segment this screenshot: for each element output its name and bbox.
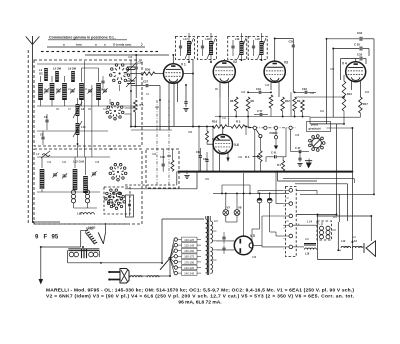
svg-text:C 41: C 41 <box>271 151 277 155</box>
svg-text:100-125: 100-125 <box>184 238 194 242</box>
wire <box>77 98 79 104</box>
coil L17 arrow <box>185 38 194 59</box>
primary top lead <box>205 216 207 219</box>
svg-text:L12: L12 <box>341 240 346 243</box>
arrowhead <box>39 279 44 285</box>
wire <box>263 114 268 116</box>
choke coil A <box>69 252 78 257</box>
wire <box>259 193 261 198</box>
wire <box>236 215 238 222</box>
wire <box>275 139 277 146</box>
phono label box <box>307 122 331 132</box>
wire <box>359 246 364 248</box>
wire <box>206 162 208 172</box>
wafer switch S3 <box>109 163 127 181</box>
svg-text:OC: OC <box>39 72 43 76</box>
capacitor C34 <box>360 37 362 41</box>
wire <box>332 229 337 231</box>
coil L4 <box>44 68 48 81</box>
cord wire end <box>155 275 170 277</box>
V6 top lead <box>222 128 224 135</box>
wire <box>317 215 319 260</box>
loop wire <box>340 59 342 81</box>
shield box 2 bottom extension <box>34 223 130 225</box>
terminal 5 <box>289 234 293 238</box>
wire <box>206 152 208 159</box>
capacitor C35 <box>360 47 362 51</box>
wire <box>178 239 182 241</box>
V3 lead <box>278 82 280 98</box>
wafer switch S1 <box>109 64 129 84</box>
wafer stub wire <box>125 107 137 109</box>
box1 lower bus <box>37 130 108 132</box>
terminal 2 <box>289 202 293 206</box>
capacitor C20 <box>292 45 295 47</box>
wire <box>241 55 243 60</box>
svg-text:210-220: 210-220 <box>184 266 194 270</box>
padder coil Lb <box>85 190 89 203</box>
svg-text:V7: V7 <box>227 206 231 210</box>
svg-text:C61: C61 <box>205 179 210 181</box>
svg-text:C29: C29 <box>138 61 144 65</box>
coupling unit box <box>126 195 134 217</box>
capacitor C26 <box>101 81 104 83</box>
wire <box>77 135 79 157</box>
wafer stub wire 2 <box>125 113 132 115</box>
svg-text:R30: R30 <box>145 68 151 72</box>
wire y97 <box>296 96 344 98</box>
choke coil B <box>89 252 98 257</box>
svg-text:R8: R8 <box>251 99 255 103</box>
tone left lead <box>80 230 82 247</box>
R4 wiper arrow <box>253 155 261 158</box>
wire <box>82 67 99 69</box>
svg-text:C42: C42 <box>152 154 157 156</box>
wire <box>337 222 339 250</box>
svg-text:L5 OM: L5 OM <box>53 67 61 71</box>
output transformer box <box>317 221 332 240</box>
ground phono <box>307 163 312 166</box>
wire <box>363 38 374 40</box>
V6 top tick <box>217 137 220 140</box>
wire <box>171 149 173 160</box>
long vertical in box1 <box>84 61 86 157</box>
wire <box>262 91 271 93</box>
capacitor C50 <box>222 237 225 239</box>
V2 lead <box>219 83 221 98</box>
selector fan wire <box>170 256 174 258</box>
outer shield left edge <box>27 50 29 224</box>
wire <box>135 55 137 67</box>
capacitor C64 <box>205 160 208 162</box>
wire <box>293 246 304 248</box>
wire <box>171 170 173 173</box>
selector tap 175-190 <box>174 260 177 263</box>
svg-text:Commutatore gamma in posizi: Commutatore gamma in posizione O.L. <box>49 36 116 40</box>
wire <box>365 59 367 65</box>
capacitor C40 <box>162 164 165 166</box>
wire <box>262 215 283 217</box>
wire up to bus <box>221 185 223 193</box>
wire <box>283 203 289 205</box>
transformer T1 core <box>207 216 208 275</box>
svg-text:V 1: V 1 <box>181 63 186 67</box>
selector tap 240-245 <box>174 271 177 274</box>
wire <box>275 38 294 40</box>
wire <box>178 272 182 274</box>
mains cord coil A <box>130 276 142 278</box>
wire <box>254 114 259 116</box>
svg-text:175-190: 175-190 <box>184 260 194 264</box>
wire <box>197 239 201 241</box>
wire <box>282 157 284 161</box>
RF coil shield box 2 <box>34 149 142 224</box>
wire <box>302 112 304 117</box>
svg-text:C64: C64 <box>203 157 208 161</box>
bus wire y116 <box>215 116 310 118</box>
coil L18 osc <box>80 213 94 215</box>
bus 214 <box>296 214 336 216</box>
coil L6 <box>71 71 75 82</box>
wire <box>41 157 43 168</box>
svg-text:C19: C19 <box>256 87 261 91</box>
transformer primary <box>206 219 208 273</box>
svg-text:C 35: C 35 <box>354 43 360 47</box>
wire <box>309 117 311 124</box>
box1 bottom bus <box>37 105 138 107</box>
svg-text:giradischi: giradischi <box>309 127 322 131</box>
switch contact b <box>264 126 267 129</box>
gang link <box>156 100 158 186</box>
secondary top lead <box>209 216 211 221</box>
capacitor C45 <box>128 204 131 205</box>
svg-text:V 5: V 5 <box>250 234 255 238</box>
wire <box>206 127 208 132</box>
wire <box>269 203 271 232</box>
svg-text:C10: C10 <box>103 109 108 111</box>
capacitor C18 <box>252 46 255 48</box>
svg-text:C22: C22 <box>241 92 246 94</box>
wire <box>178 267 182 269</box>
wire <box>85 157 87 175</box>
resistor R8 <box>246 97 250 111</box>
svg-text:C27: C27 <box>143 80 149 84</box>
V2 top lead <box>223 59 225 61</box>
capacitor C41 <box>275 155 277 158</box>
coil L8 arrow <box>73 102 82 118</box>
svg-text:L17: L17 <box>184 38 189 41</box>
wire <box>188 33 190 41</box>
wire y185 <box>222 184 250 186</box>
wire <box>275 232 277 236</box>
transformer secondary LT <box>210 247 212 273</box>
resistor R5 <box>282 161 285 172</box>
svg-text:C23: C23 <box>310 93 315 95</box>
resistor R15 <box>206 131 209 142</box>
svg-text:R18: R18 <box>167 156 172 158</box>
wire <box>129 196 131 204</box>
wire to strip 6 <box>262 246 283 248</box>
V6 cathode lead <box>219 153 221 171</box>
coil L3 <box>62 83 67 100</box>
wire <box>87 203 89 208</box>
wire drop <box>212 127 214 172</box>
svg-text:R 3: R 3 <box>236 120 241 124</box>
V5 plate feed wire <box>243 173 245 236</box>
switch arm contact <box>259 135 262 138</box>
svg-text:F: F <box>44 235 48 241</box>
wire <box>265 157 267 162</box>
wafer1 bottom stub <box>119 85 121 91</box>
selector fan wire <box>170 245 174 258</box>
wire <box>197 272 201 274</box>
bus 124 <box>310 123 344 125</box>
wire to strip top <box>277 172 279 181</box>
return wire y216 <box>317 215 372 217</box>
wire <box>73 203 75 208</box>
wire <box>290 130 292 152</box>
voice coil L12 <box>341 246 351 248</box>
capacitor C6 <box>45 120 48 122</box>
svg-text:125-145: 125-145 <box>184 244 194 248</box>
wire <box>292 47 294 92</box>
coil L1 OM <box>79 83 84 100</box>
wire arm to pot <box>259 138 261 151</box>
wire <box>162 149 164 164</box>
wire <box>227 126 231 128</box>
svg-text:presa: presa <box>311 123 318 127</box>
svg-text:R 4: R 4 <box>245 155 250 159</box>
speaker cone <box>366 241 376 257</box>
pilot lamp V7 <box>223 210 229 216</box>
wire <box>98 100 100 106</box>
wafer switch S5 <box>105 189 123 207</box>
wire <box>197 250 201 252</box>
filter core top <box>68 249 99 251</box>
RF coil shield box 1 <box>34 60 142 146</box>
wire <box>283 246 289 248</box>
wire <box>74 190 76 192</box>
resistor R16 <box>213 125 227 129</box>
resistor R6 <box>234 97 238 111</box>
return wire y178 <box>283 178 355 180</box>
svg-text:V2: V2 <box>233 60 237 64</box>
V4 lead <box>351 80 353 90</box>
wire <box>266 156 274 158</box>
selector label 125-145 <box>182 243 198 248</box>
wire <box>345 246 349 248</box>
capacitor C37 <box>299 150 301 153</box>
wire <box>338 249 341 251</box>
wire <box>149 85 160 87</box>
capacitor C27 <box>146 84 148 87</box>
wire <box>253 48 255 56</box>
tube V3 <box>264 61 285 82</box>
trimmer C17 <box>91 171 96 176</box>
bottom wire <box>318 259 353 261</box>
svg-text:240-245: 240-245 <box>184 272 194 276</box>
wafer stub wire 3 <box>109 99 111 104</box>
coil L2 OM <box>96 83 101 100</box>
wire <box>210 33 212 41</box>
field coil L16 core <box>304 244 316 246</box>
wire <box>210 55 212 62</box>
wire <box>327 38 360 40</box>
wire <box>251 229 253 241</box>
terminal 6 <box>289 245 293 249</box>
long bus y126 <box>131 126 213 128</box>
osc coil bottom wire <box>74 207 98 209</box>
fono arrow <box>274 146 278 150</box>
svg-text:R 1: R 1 <box>140 103 145 107</box>
coil L2 <box>50 83 55 100</box>
wire <box>98 68 100 82</box>
V3 lead <box>270 82 272 91</box>
capacitor C17 <box>231 46 234 48</box>
svg-text:V-6: V-6 <box>234 143 239 147</box>
ground main bus <box>184 176 189 179</box>
svg-text:C36: C36 <box>295 135 300 137</box>
capacitor C57 <box>201 46 204 48</box>
wire <box>64 100 66 106</box>
capacitor C19 <box>259 91 261 94</box>
coil L19 <box>240 41 244 55</box>
wire <box>291 151 299 153</box>
wire <box>225 193 227 209</box>
box2 top bus <box>37 156 110 158</box>
wire <box>283 215 289 217</box>
svg-text:V8: V8 <box>238 206 242 210</box>
wire <box>155 73 164 75</box>
wire <box>40 76 42 82</box>
wire <box>185 85 187 101</box>
wire <box>245 127 247 136</box>
wire drop d <box>285 128 287 157</box>
coil L5 <box>55 71 59 82</box>
IF can T2b <box>248 37 267 60</box>
svg-text:160-175: 160-175 <box>184 255 194 259</box>
trimmer C15 <box>52 172 57 177</box>
svg-text:C32: C32 <box>357 53 363 57</box>
resistor R13 <box>342 81 346 111</box>
wire <box>283 189 289 191</box>
wire <box>81 100 83 106</box>
wire <box>276 203 283 205</box>
pilot lamp V8 <box>234 210 240 216</box>
wire <box>363 58 366 60</box>
svg-text:L20: L20 <box>256 38 261 41</box>
tone control pot body <box>85 230 97 244</box>
wire <box>67 250 69 262</box>
switch drop wire <box>254 130 256 172</box>
wire <box>192 60 194 127</box>
resistor R10 <box>301 100 305 112</box>
coil L19 arrow <box>238 38 247 59</box>
IF can T2a <box>228 37 247 60</box>
wire <box>186 172 188 174</box>
resistor R3 <box>231 125 245 129</box>
V2 lead <box>228 82 230 97</box>
svg-text:C 37: C 37 <box>295 146 301 150</box>
wire <box>261 216 263 245</box>
wire <box>188 55 190 62</box>
mains switch contact <box>169 257 171 259</box>
return wire y183 <box>295 183 348 185</box>
long vertical wire <box>336 124 338 215</box>
coil L7 arrow symbol <box>41 151 50 158</box>
wire <box>275 130 277 136</box>
coil L10 <box>76 123 80 135</box>
electrolytic C53 <box>267 198 272 203</box>
svg-text:V2 = 6NK7 (idem) V3 = (90 V pl: V2 = 6NK7 (idem) V3 = (90 V pl.) V4 = 6L… <box>46 294 355 300</box>
heater bus y193 <box>213 192 289 194</box>
svg-text:C60: C60 <box>188 132 193 134</box>
svg-text:C31: C31 <box>155 107 160 109</box>
selector label 210-220 <box>182 265 198 270</box>
wire <box>290 92 292 116</box>
box1 top bus <box>37 63 138 65</box>
coil L18 arrow <box>207 38 216 59</box>
wire <box>202 48 204 56</box>
gang wire <box>130 70 132 82</box>
svg-text:O: O <box>287 196 289 200</box>
tone switch arm <box>103 232 105 243</box>
svg-text:C 57: C 57 <box>257 109 263 113</box>
wire <box>253 40 255 46</box>
wire <box>51 100 53 106</box>
tube V4 <box>346 62 366 82</box>
capacitor C62 <box>199 156 202 158</box>
wire <box>277 156 286 158</box>
svg-text:R14: R14 <box>365 92 370 94</box>
wire <box>223 245 225 248</box>
long vertical in box1 b <box>91 85 93 157</box>
selector label 100-125 <box>182 237 198 242</box>
phono connector P1 <box>309 135 326 152</box>
long vertical wire 2 <box>351 128 353 242</box>
wire <box>370 216 372 241</box>
selector tap 145-160 <box>174 249 177 252</box>
wire <box>275 172 277 204</box>
IF can T1a <box>175 37 194 60</box>
V1 lead <box>173 84 175 127</box>
svg-text:R13: R13 <box>347 92 352 96</box>
rectifier plate wire <box>217 240 235 242</box>
svg-text:96 mA, 6L6 72 mA.: 96 mA, 6L6 72 mA. <box>178 300 222 306</box>
field coil L16 <box>305 248 317 249</box>
wire below bus 2 <box>196 172 198 189</box>
tuning cap CV2 <box>126 77 136 87</box>
resistor R40 <box>171 160 174 171</box>
switch contact d <box>289 126 292 129</box>
rectifier plate wire 2 <box>217 249 235 251</box>
svg-text:C40: C40 <box>160 155 165 159</box>
secondary tap 3 <box>213 249 217 251</box>
wire <box>252 228 260 230</box>
secondary tap 2 <box>213 240 217 242</box>
svg-text:L19: L19 <box>235 38 240 41</box>
wire <box>81 68 83 82</box>
pickup wire <box>41 246 81 248</box>
wire <box>178 255 182 257</box>
svg-text:C12: C12 <box>47 162 52 164</box>
terminal strip box <box>285 187 296 257</box>
capacitor C57b <box>260 113 262 116</box>
wire <box>269 193 271 198</box>
wire <box>159 86 161 130</box>
V6 lead <box>227 153 229 158</box>
svg-text:L16: L16 <box>305 253 310 256</box>
